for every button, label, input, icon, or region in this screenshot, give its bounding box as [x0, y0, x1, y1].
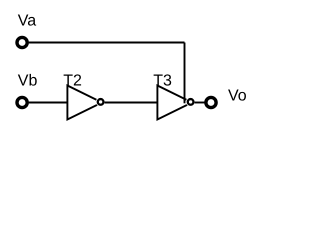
terminal Vb [17, 97, 27, 107]
wire Vb terminal to T2 input [29, 102, 68, 104]
terminal Va [17, 37, 27, 47]
inverter T2 bubble mask [96, 97, 106, 107]
svg-text:Vo: Vo [228, 88, 247, 105]
svg-text:Va: Va [18, 13, 36, 30]
wire Va terminal to top-right corner [29, 42, 185, 44]
svg-text:T3: T3 [153, 73, 172, 90]
inverter T2 triangle [67, 86, 102, 120]
wire T3 output to Vo terminal [195, 102, 205, 104]
inverter T3 bubble mask [186, 97, 196, 107]
inverter T3 bubble [188, 99, 194, 105]
svg-text:Vb: Vb [18, 73, 38, 90]
wire T2 output to T3 input [105, 102, 158, 104]
svg-text:T2: T2 [63, 73, 82, 90]
inverter T2 bubble [98, 99, 104, 105]
inverter T3 triangle [157, 86, 192, 120]
terminal Vo [206, 97, 216, 107]
wire vertical down to T3 output node [184, 43, 186, 104]
